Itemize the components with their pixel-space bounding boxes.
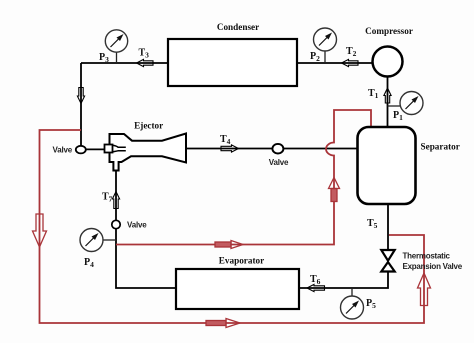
red arrow down on left red line xyxy=(33,214,47,247)
red pipe: main loop left/bottom/right xyxy=(40,130,425,323)
wire ejector suction down to valve V3 (T7 line) xyxy=(115,170,117,221)
valve V3 (circle) on T7 line xyxy=(112,220,120,228)
thermostatic expansion valve (bowtie) xyxy=(381,250,394,272)
svg-text:Valve: Valve xyxy=(127,220,147,229)
black arrow T2 (left) on compressor-out pipe xyxy=(342,59,359,66)
wire condenser-in from compressor (black, y=63) xyxy=(297,62,373,64)
red arrow right on bottom red line xyxy=(206,319,240,328)
svg-text:Evaporator: Evaporator xyxy=(219,256,264,266)
svg-text:Ejector: Ejector xyxy=(134,121,163,131)
evaporator xyxy=(176,269,299,309)
gauge P5 xyxy=(341,288,377,319)
svg-text:Expansion Valve: Expansion Valve xyxy=(403,262,463,271)
gauge P4 xyxy=(80,229,116,270)
compressor xyxy=(373,47,403,77)
svg-text:Condenser: Condenser xyxy=(217,22,259,32)
wire condenser-out to corner (black, y=63) xyxy=(81,62,168,64)
condenser xyxy=(168,39,297,86)
ejector body xyxy=(110,134,187,171)
svg-text:Thermostatic: Thermostatic xyxy=(403,252,451,261)
valve V1 (ellipse) at condenser-line corner xyxy=(76,146,86,154)
wire valve V1 to ejector nozzle xyxy=(86,148,106,150)
gauge P1 xyxy=(388,92,424,123)
ejector nozzle cone and prongs xyxy=(113,145,126,152)
black arrow T4 (right) on ejector exit pipe xyxy=(221,145,239,152)
wire expansion valve to evaporator (T6 line) xyxy=(299,271,388,288)
wire ejector exit to valve V2 (T4 line) xyxy=(187,148,272,150)
red arrow up on middle red vertical xyxy=(329,178,340,202)
wire separator bottom to expansion valve (T5 line) xyxy=(387,204,389,251)
black arrow T1 (up) on compressor-in pipe xyxy=(384,88,391,103)
black arrow T6 (left) on evaporator-in pipe xyxy=(307,284,325,291)
red arrow up on right red line xyxy=(418,273,431,306)
svg-text:Compressor: Compressor xyxy=(365,26,413,36)
wire valve V3 down and to evaporator inlet xyxy=(116,228,176,288)
ejector motive nozzle box xyxy=(105,145,113,153)
svg-text:Separator: Separator xyxy=(421,142,460,152)
wire valve V2 to separator left xyxy=(282,148,358,150)
separator xyxy=(358,127,416,204)
black arrow down on x=81 vertical xyxy=(77,88,84,104)
black arrow T7 (up) on suction pipe xyxy=(112,192,119,209)
gauge P2 xyxy=(310,28,337,63)
red pipe: P4 junction to separator top (with hop over black pipe) xyxy=(116,110,371,245)
svg-text:Valve: Valve xyxy=(53,146,73,155)
svg-text:Valve: Valve xyxy=(269,158,289,167)
gauge P3 xyxy=(99,30,128,64)
wire compressor down to separator (T1 line) xyxy=(387,76,389,128)
red arrow right on middle red line xyxy=(215,241,243,249)
wire corner down to valve V1 (black, x=81) xyxy=(80,63,82,147)
valve V2 (circle) on T4 line xyxy=(272,144,283,154)
black arrow T3 (left) on condenser-out pipe xyxy=(137,59,154,66)
